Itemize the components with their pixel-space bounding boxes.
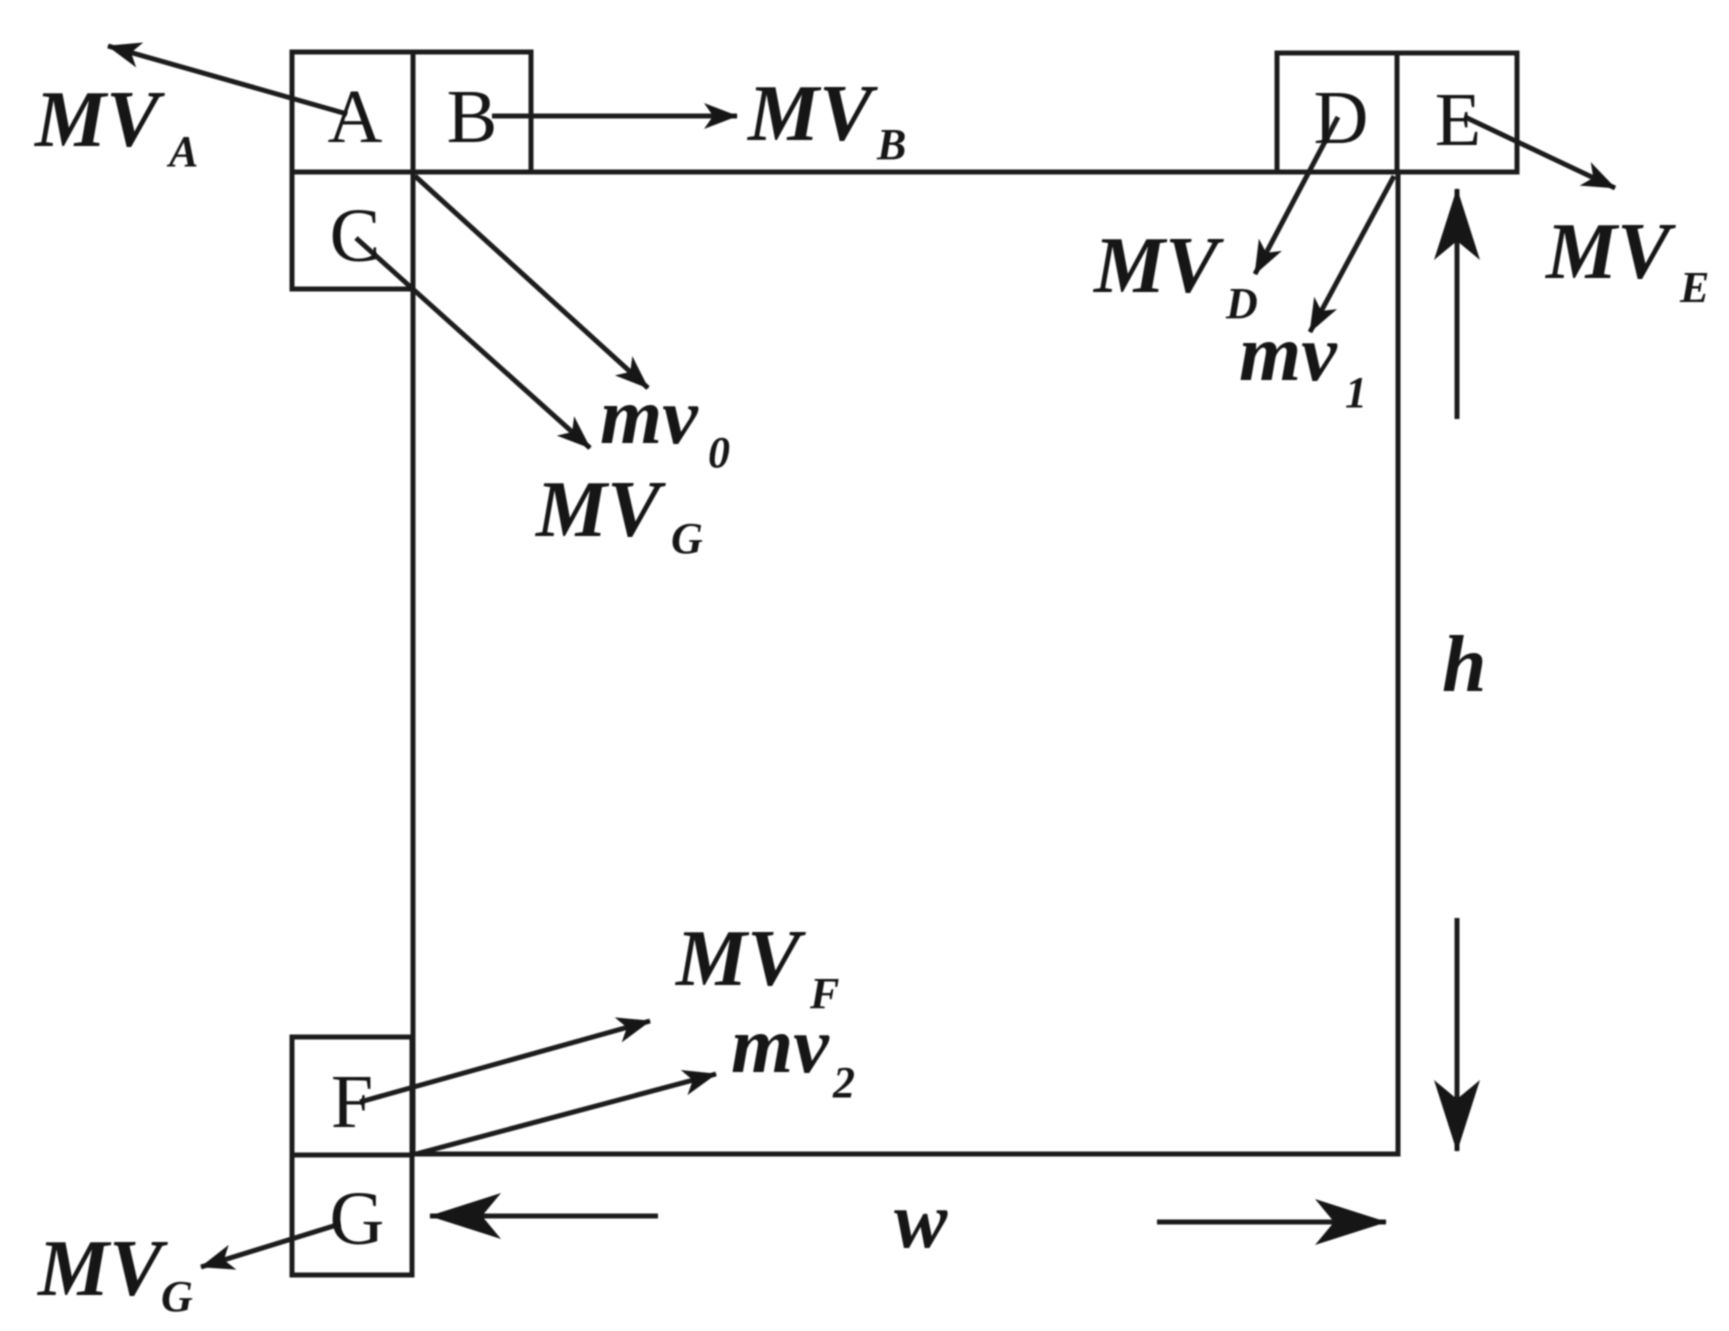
svg-text:0: 0	[708, 428, 730, 477]
svg-text:B: B	[876, 120, 906, 169]
svg-text:MV: MV	[1092, 222, 1224, 310]
svg-text:h: h	[1442, 621, 1487, 709]
arrow MV_D	[1255, 117, 1338, 274]
svg-text:C: C	[330, 194, 381, 278]
block A	[292, 52, 413, 172]
block E	[1397, 53, 1517, 172]
svg-text:MV: MV	[33, 76, 165, 164]
arrow MV_E	[1465, 117, 1615, 188]
block C	[292, 172, 413, 289]
svg-text:F: F	[331, 1060, 373, 1144]
arrow mv_2	[416, 1074, 716, 1154]
arrow h up	[1455, 189, 1460, 419]
arrow MV_C	[356, 238, 590, 448]
svg-text:E: E	[1435, 78, 1481, 162]
svg-text:mv: mv	[731, 1002, 830, 1090]
svg-text:mv: mv	[600, 373, 699, 461]
arrow h down	[1455, 918, 1460, 1151]
arrow MV_G bottom	[201, 1224, 340, 1267]
block G	[292, 1155, 412, 1275]
arrow MV_F	[360, 1021, 650, 1102]
svg-text:G: G	[161, 1272, 193, 1321]
svg-text:mv: mv	[1239, 310, 1338, 398]
svg-text:MV: MV	[36, 1225, 168, 1313]
arrow MV_A	[108, 46, 347, 114]
arrow MV_B	[492, 114, 737, 119]
block F	[292, 1037, 412, 1155]
svg-text:A: A	[166, 127, 198, 176]
block B	[413, 52, 531, 172]
svg-text:MV: MV	[534, 466, 666, 554]
svg-text:G: G	[671, 514, 703, 563]
svg-text:2: 2	[832, 1058, 855, 1107]
arrow mv_0	[415, 176, 648, 388]
current block (main rectangle w x h)	[413, 172, 1398, 1154]
svg-text:MV: MV	[1544, 208, 1676, 296]
svg-text:MV: MV	[674, 915, 806, 1003]
arrow w left	[430, 1214, 658, 1219]
arrow mv_1	[1310, 176, 1394, 332]
svg-text:B: B	[447, 75, 498, 159]
svg-text:MV: MV	[746, 70, 878, 158]
svg-text:1: 1	[1345, 368, 1367, 417]
block D	[1277, 53, 1397, 172]
svg-text:D: D	[1314, 76, 1369, 160]
svg-text:w: w	[894, 1177, 948, 1265]
arrow w right	[1157, 1220, 1386, 1225]
svg-text:E: E	[1679, 263, 1709, 312]
svg-text:A: A	[328, 75, 383, 159]
svg-text:G: G	[330, 1177, 385, 1261]
